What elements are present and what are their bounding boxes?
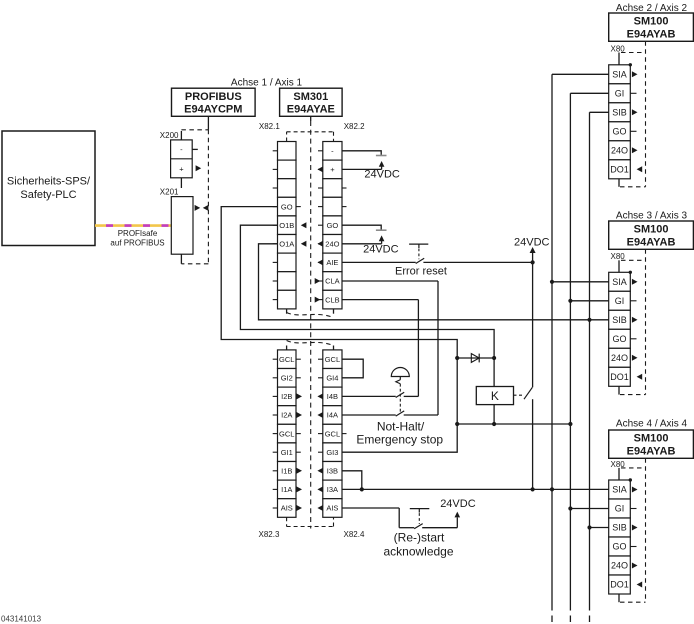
junction contact / I3A line <box>531 487 535 491</box>
arrows X201 bus in/out <box>195 205 209 211</box>
pin stub X200 minus <box>192 148 198 150</box>
svg-text:GI2: GI2 <box>281 374 293 383</box>
svg-text:GI: GI <box>615 504 625 514</box>
dashed bracket above X82.1/X82.2 <box>287 132 334 142</box>
junction diode left <box>455 356 459 360</box>
pushbutton actuator error reset <box>409 244 428 259</box>
switch S3 restart contact <box>414 524 423 529</box>
svg-text:SIB: SIB <box>612 315 627 325</box>
connector strip X80 axis 4 <box>609 480 631 594</box>
svg-text:I2A: I2A <box>281 411 292 420</box>
svg-text:X82.3: X82.3 <box>259 530 280 539</box>
pin arrows X80 axis 2 <box>630 71 642 172</box>
svg-text:+: + <box>179 165 184 174</box>
connector strip X80 axis 3 <box>609 272 631 386</box>
wire K common rail to GI bus <box>457 423 570 425</box>
junction error-reset / 24VDC <box>531 260 535 264</box>
svg-text:X82.4: X82.4 <box>344 530 365 539</box>
dashed boundary SM100 axis 3 <box>620 249 646 394</box>
svg-text:I1B: I1B <box>281 467 292 476</box>
emergency stop mushroom button S2 <box>391 368 409 414</box>
wire jumper GCL to GI4 <box>342 359 363 378</box>
wire Achse4 GI <box>570 508 608 510</box>
svg-text:GCL: GCL <box>279 355 294 364</box>
arrow X200 plus output <box>196 165 202 171</box>
wire I3B to I3A junction <box>342 471 362 490</box>
switch contact S2b at I4A <box>396 411 405 416</box>
svg-text:Achse 3 / Axis 3: Achse 3 / Axis 3 <box>616 211 688 222</box>
svg-text:24O: 24O <box>611 561 628 571</box>
svg-text:GI: GI <box>615 88 625 98</box>
svg-text:E94AYAB: E94AYAB <box>627 237 676 249</box>
wire minus to 0V rail <box>342 151 381 155</box>
wire stub X80 bottom axis 4 <box>618 594 620 602</box>
connector X200 <box>171 131 193 178</box>
svg-text:DO1: DO1 <box>610 580 629 590</box>
junction X80 corner axis 4 <box>629 478 632 481</box>
dashed break mark above lower strips <box>287 341 334 346</box>
svg-text:24O: 24O <box>611 353 628 363</box>
wire 24O from 24VDC supply <box>342 243 382 245</box>
connector strip X82.4 <box>323 350 342 517</box>
pin arrows X80 axis 4 <box>630 487 642 588</box>
pin ticks X82.2 left side <box>318 151 323 300</box>
svg-text:CLB: CLB <box>325 295 340 304</box>
wire Achse4 SIB <box>590 527 609 529</box>
arrow 24VDC main supply <box>530 247 536 253</box>
svg-text:GO: GO <box>327 221 339 230</box>
svg-text:GI3: GI3 <box>326 448 338 457</box>
svg-text:E94AYCPM: E94AYCPM <box>184 104 242 116</box>
0V rail symbol at GO <box>376 229 387 231</box>
svg-text:24O: 24O <box>611 145 628 155</box>
module SM301 E94AYAE <box>280 88 343 116</box>
svg-text:E94AYAE: E94AYAE <box>287 104 335 116</box>
svg-text:AIS: AIS <box>326 504 338 513</box>
wire 24VDC down to K contact <box>532 253 534 388</box>
svg-text:GI4: GI4 <box>326 374 338 383</box>
svg-text:X82.1: X82.1 <box>259 122 280 131</box>
svg-text:AIS: AIS <box>281 504 293 513</box>
wire O1A to SIB bus / Achse 3 SIB <box>259 244 609 320</box>
module SM100 E94AYAB axis 3 <box>609 221 694 249</box>
wire stub X80 top axis 3 <box>618 260 620 272</box>
junction K rail <box>492 422 496 426</box>
svg-text:(Re-)start: (Re-)start <box>394 531 445 545</box>
arrow 24VDC supply at 24O <box>379 235 385 243</box>
svg-text:Achse 2 / Axis 2: Achse 2 / Axis 2 <box>616 3 688 14</box>
wire stub X80 bottom axis 3 <box>618 386 620 394</box>
dashed boundary SM100 axis 4 <box>620 458 646 602</box>
svg-text:I3A: I3A <box>327 485 338 494</box>
arrow X82.2 CLB output <box>315 297 321 303</box>
bus SIA (channel A) <box>551 74 553 622</box>
pin ticks X82.2 right side empty cells <box>342 188 347 207</box>
svg-text:Sicherheits-SPS/: Sicherheits-SPS/ <box>7 176 91 188</box>
connector strip X80 axis 2 <box>609 65 631 179</box>
svg-text:I4A: I4A <box>327 411 338 420</box>
wire stub X200 to X201 <box>180 178 182 188</box>
arrow X82.1 O1A output <box>301 241 307 247</box>
wire plus from 24VDC supply <box>342 168 382 170</box>
svg-text:acknowledge: acknowledge <box>383 544 453 558</box>
wire diode branch <box>457 357 494 359</box>
pin ticks X82.3 right side <box>296 359 301 452</box>
label Not-Halt / Emergency stop <box>356 420 443 447</box>
svg-text:PROFIsafe: PROFIsafe <box>118 229 158 238</box>
wire I3A to Achse 4 SIA <box>342 488 609 490</box>
wire stub X82.3 top <box>286 346 288 350</box>
pin ticks X82.4 left side <box>318 359 323 452</box>
diode V1 <box>471 354 479 363</box>
svg-text:GO: GO <box>612 542 626 552</box>
switch contact S2a at I4B <box>396 392 405 397</box>
wire Achse3 SIA <box>552 281 609 283</box>
junction GI bus rail <box>568 422 572 426</box>
connector strip X82.2 <box>323 142 342 309</box>
svg-text:GO: GO <box>612 126 626 136</box>
module PROFIBUS E94AYCPM <box>172 88 256 116</box>
junction I3B/I3A <box>360 487 364 491</box>
svg-text:GI1: GI1 <box>281 448 293 457</box>
wire stub PROFIBUS module <box>207 116 209 130</box>
svg-text:SIB: SIB <box>612 523 627 533</box>
svg-text:X82.2: X82.2 <box>344 122 365 131</box>
svg-text:SIA: SIA <box>612 69 627 79</box>
svg-text:E94AYAB: E94AYAB <box>627 29 676 41</box>
wire Achse2 SIB <box>590 111 609 113</box>
svg-text:SIA: SIA <box>612 485 627 495</box>
svg-text:GCL: GCL <box>279 429 294 438</box>
pin ticks X82.3 left side <box>273 359 278 508</box>
arrows X82.4 inputs I4B I4A I3B I3A AIS <box>317 393 323 511</box>
wire stub X82.2 bottom <box>333 309 335 314</box>
svg-text:Not-Halt/: Not-Halt/ <box>377 420 425 434</box>
Safety-PLC box U10 <box>2 131 95 246</box>
relay coil K <box>476 358 513 424</box>
svg-text:24VDC: 24VDC <box>440 498 476 510</box>
svg-text:GO: GO <box>281 202 293 211</box>
arrows X82.3 inputs I2B I2A I1B I1A AIS <box>296 393 302 511</box>
wire Achse2 GI <box>570 92 608 94</box>
arrow X82.2 24O input <box>317 241 323 247</box>
dashed break mark below upper strips <box>287 313 334 318</box>
0V rail symbol at minus <box>376 155 387 157</box>
svg-text:24O: 24O <box>325 240 339 249</box>
svg-text:043141013: 043141013 <box>1 614 42 623</box>
svg-text:GI: GI <box>615 296 625 306</box>
wire stub X82.1 bottom <box>286 309 288 314</box>
svg-text:SM301: SM301 <box>293 91 328 103</box>
svg-text:Error reset: Error reset <box>395 265 447 277</box>
arrow X82.1 O1B output <box>301 222 307 228</box>
svg-text:Achse 1 / Axis 1: Achse 1 / Axis 1 <box>231 77 303 88</box>
svg-text:GCL: GCL <box>325 429 340 438</box>
svg-text:PROFIBUS: PROFIBUS <box>185 91 242 103</box>
svg-text:auf PROFIBUS: auf PROFIBUS <box>110 239 164 248</box>
svg-text:24VDC: 24VDC <box>363 244 399 256</box>
svg-text:GCL: GCL <box>325 355 340 364</box>
svg-text:K: K <box>491 389 499 403</box>
wire CLA to I4A via emergency-stop contact <box>342 281 438 415</box>
svg-text:X201: X201 <box>160 188 179 197</box>
svg-text:SM100: SM100 <box>634 433 669 445</box>
svg-text:SIA: SIA <box>612 277 627 287</box>
dashed boundary SM100 axis 2 <box>620 41 646 187</box>
wire stub X82.4 top <box>333 346 335 350</box>
label (Re-)start acknowledge <box>383 531 453 559</box>
wire K contact to I3A line <box>532 399 534 489</box>
wire AIS restart-acknowledge line <box>342 508 457 528</box>
pin tick X82.4 GCL right side <box>342 433 347 435</box>
svg-text:SM100: SM100 <box>634 16 669 28</box>
pin ticks X82.1 left side <box>273 151 278 300</box>
svg-text:DO1: DO1 <box>610 164 629 174</box>
svg-text:I2B: I2B <box>281 392 292 401</box>
svg-text:GO: GO <box>612 334 626 344</box>
wire GO to 0V rail <box>342 225 381 229</box>
svg-text:I3B: I3B <box>327 467 338 476</box>
junction O1A line / SIB bus <box>587 318 591 322</box>
arrow X82.2 CLA output <box>315 278 321 284</box>
wire Achse3 GI <box>570 300 608 302</box>
svg-text:24VDC: 24VDC <box>364 168 400 180</box>
label PROFIsafe auf PROFIBUS <box>110 229 164 247</box>
dashed outline PROFIBUS module <box>181 130 208 264</box>
module SM100 E94AYAB axis 4 <box>609 430 694 458</box>
arrow 24VDC supply at restart <box>455 512 461 518</box>
svg-text:24VDC: 24VDC <box>514 237 550 249</box>
wire stub X80 top axis 2 <box>618 53 620 65</box>
wire O1B to K-coil branch <box>240 225 494 358</box>
bus SIB (channel B) <box>589 112 591 622</box>
junction SIA bus / I3A line <box>550 487 554 491</box>
module SM100 E94AYAB axis 2 <box>609 13 694 41</box>
bus GI (ground) <box>569 93 571 622</box>
dashed bracket below X82.3/X82.4 <box>287 517 334 526</box>
dashed boundary SM301 module (center line) <box>310 121 312 529</box>
connector strip X82.1 <box>278 142 297 309</box>
wire stub SM301 module <box>310 116 312 121</box>
junction diode right <box>492 356 496 360</box>
arrow X82.2 AIE input <box>317 259 323 265</box>
svg-text:Achse 4 / Axis 4: Achse 4 / Axis 4 <box>616 419 688 430</box>
switch contact K1 (relay K) <box>524 387 532 399</box>
svg-text:DO1: DO1 <box>610 372 629 382</box>
svg-text:SIB: SIB <box>612 107 627 117</box>
svg-text:+: + <box>330 165 335 174</box>
svg-text:O1A: O1A <box>279 240 294 249</box>
svg-text:I4B: I4B <box>327 392 338 401</box>
wire stub X201 bottom <box>180 254 182 264</box>
svg-text:E94AYAB: E94AYAB <box>627 446 676 458</box>
wire CLB to I4B via emergency-stop contact <box>342 300 418 397</box>
wire Achse2 SIA <box>552 73 609 75</box>
arrow 24VDC supply at plus <box>379 161 385 169</box>
svg-text:I1A: I1A <box>281 485 292 494</box>
switch S1 error reset contact <box>416 258 425 263</box>
dashed actuator link K to contact <box>514 394 523 396</box>
svg-text:O1B: O1B <box>279 221 294 230</box>
arrow X82.2 plus input <box>317 166 323 172</box>
connector X201 <box>171 197 193 255</box>
svg-text:AIE: AIE <box>326 258 338 267</box>
junction X80 corner axis 3 <box>629 271 632 274</box>
svg-text:SM100: SM100 <box>634 224 669 236</box>
wire GO to GI3 (safety ground loop) <box>221 207 457 453</box>
pin tick X82.1 GO right side <box>296 206 301 208</box>
wire stub X80 top axis 4 <box>618 468 620 480</box>
junction X80 corner axis 2 <box>629 63 632 66</box>
svg-text:CLA: CLA <box>325 277 340 286</box>
connector strip X82.3 <box>278 350 297 517</box>
wire PROFIsafe bus (yellow/magenta) <box>95 224 171 227</box>
wire stub X80 bottom axis 2 <box>618 179 620 187</box>
svg-text:Safety-PLC: Safety-PLC <box>20 189 76 201</box>
wire AIE error-reset line <box>342 261 533 263</box>
pin arrows X80 axis 3 <box>630 279 642 380</box>
junction GX rail <box>455 422 459 426</box>
pushbutton actuator restart <box>410 509 430 524</box>
svg-text:X200: X200 <box>160 131 179 140</box>
svg-text:Emergency stop: Emergency stop <box>356 433 443 447</box>
